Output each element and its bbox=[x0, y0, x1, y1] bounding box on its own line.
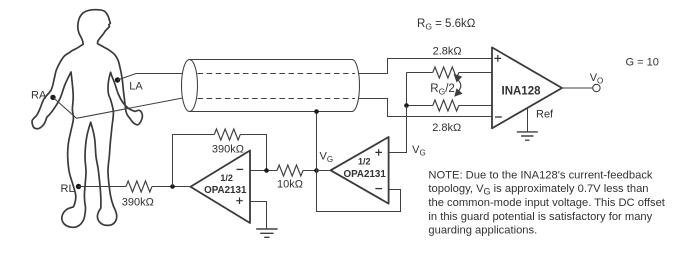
op-amp2 + input symbol bbox=[375, 149, 382, 156]
wire shield tap down to VG bbox=[316, 112, 318, 171]
op-amp U2 OPA2131 triangle bbox=[331, 137, 389, 204]
svg-text:10kΩ: 10kΩ bbox=[277, 178, 303, 190]
svg-text:390kΩ: 390kΩ bbox=[212, 144, 244, 156]
shielded cable: left ellipse opening bbox=[182, 60, 198, 112]
wire RG lower branch bbox=[407, 105, 493, 107]
shielded cable: cylinder body bbox=[190, 60, 353, 112]
wire top conductor to INA128 +input bbox=[359, 59, 493, 74]
op-amp1 + input symbol bbox=[236, 197, 243, 204]
wire RG upper branch bbox=[406, 72, 492, 74]
op-amp INA128 triangle bbox=[492, 47, 562, 128]
electrode dot LA bbox=[115, 77, 120, 82]
wire RL to 390k bbox=[79, 186, 127, 188]
resistor 390k feedback bbox=[214, 129, 240, 140]
svg-text:OPA2131: OPA2131 bbox=[204, 185, 247, 196]
wire op-amp2 feedback loop bbox=[317, 171, 401, 212]
human body figure outline bbox=[32, 10, 142, 228]
wire VG to op-amp2 output bbox=[317, 170, 331, 172]
resistor 390k (RL) bbox=[126, 181, 152, 192]
output terminal circle bbox=[593, 84, 600, 91]
svg-text:LA: LA bbox=[129, 81, 143, 93]
electrode dot RA bbox=[50, 95, 55, 100]
wire op-amp1 +input to ground bbox=[250, 202, 267, 229]
svg-text:topology, VG is approximately: topology, VG is approximately 0.7V less … bbox=[428, 183, 648, 196]
wire LA to cable bbox=[118, 74, 183, 81]
svg-text:2.8kΩ: 2.8kΩ bbox=[432, 122, 461, 134]
feedback loop wire op-amp1 bbox=[173, 135, 267, 187]
output wire Vo bbox=[562, 87, 593, 89]
wire 390k to op-amp1 output bbox=[152, 186, 191, 188]
wire op-amp2 +input to RG midpoint bbox=[389, 106, 407, 153]
op-amp2 - input symbol bbox=[375, 188, 382, 190]
electrode dot RL bbox=[76, 184, 81, 189]
resistor RG/2 lower bbox=[433, 100, 459, 111]
svg-text:390kΩ: 390kΩ bbox=[122, 197, 154, 209]
node VG bbox=[314, 168, 319, 173]
svg-text:2.8kΩ: 2.8kΩ bbox=[433, 46, 462, 58]
svg-text:G = 10: G = 10 bbox=[626, 57, 659, 69]
svg-text:INA128: INA128 bbox=[502, 86, 542, 98]
svg-text:in this guard potential is sat: in this guard potential is satisfactory … bbox=[428, 211, 652, 223]
node feedback junction op-amp1 bbox=[264, 168, 269, 173]
wire RA to cable bbox=[53, 97, 183, 118]
svg-text:1/2: 1/2 bbox=[220, 173, 233, 183]
svg-text:OPA2131: OPA2131 bbox=[344, 169, 387, 180]
resistor 10k bbox=[277, 165, 303, 176]
op-amp U1 OPA2131 triangle bbox=[191, 151, 251, 224]
INA128 - input symbol bbox=[495, 116, 502, 118]
wire bottom conductor to INA128 -input bbox=[359, 99, 492, 117]
wire 10k to VG node bbox=[303, 170, 317, 172]
dashed inner conductor bottom bbox=[198, 98, 356, 100]
wire RG vertical tie bbox=[406, 73, 408, 106]
wire op-amp1 -input bbox=[250, 170, 277, 172]
node RG midpoint bbox=[404, 103, 409, 108]
dashed inner conductor top bbox=[198, 73, 356, 75]
INA128 + input symbol bbox=[494, 55, 501, 62]
ground symbol at Ref bbox=[517, 132, 538, 140]
node op-amp1 output junction bbox=[170, 184, 175, 189]
svg-text:NOTE: Due to the INA128's curr: NOTE: Due to the INA128's current-feedba… bbox=[428, 169, 653, 181]
svg-text:Ref: Ref bbox=[536, 109, 554, 121]
Ref pin wire bbox=[527, 109, 529, 133]
svg-text:guarding applications.: guarding applications. bbox=[428, 225, 537, 237]
svg-text:1/2: 1/2 bbox=[358, 156, 371, 166]
svg-text:RA: RA bbox=[31, 90, 47, 102]
curved gain arrow across RG/2 resistors bbox=[457, 79, 461, 92]
svg-text:RL: RL bbox=[61, 183, 75, 195]
ground symbol op-amp1 bbox=[256, 229, 277, 237]
svg-text:the common-mode input voltage.: the common-mode input voltage. This DC o… bbox=[428, 197, 665, 209]
shielded cable: right end cap arc bbox=[352, 60, 360, 112]
node shield junction bbox=[314, 109, 319, 114]
resistor RG/2 upper bbox=[433, 67, 459, 78]
op-amp1 - input symbol bbox=[237, 168, 244, 170]
